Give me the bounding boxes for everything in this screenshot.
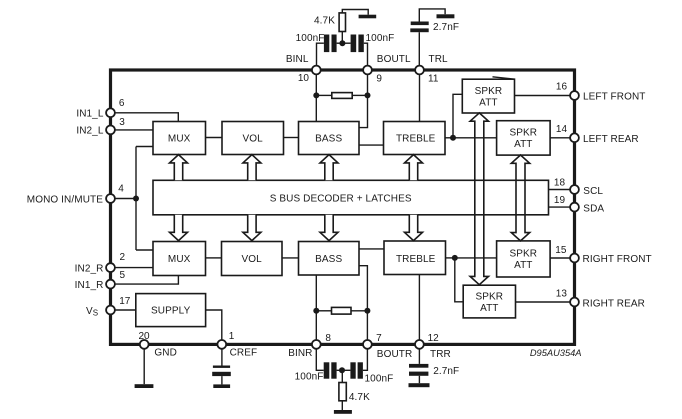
svg-text:16: 16	[556, 82, 568, 93]
pin 6 circle	[106, 108, 115, 117]
capacitor C1 100nF (top left) plate 1	[324, 35, 329, 53]
wire pin4 to node A	[115, 198, 136, 200]
capacitor C2 100nF (top right) plate 2	[358, 35, 363, 53]
arrow SBUS to TREBLE top	[405, 155, 423, 181]
svg-text:MUX: MUX	[168, 134, 191, 145]
svg-text:2.7nF: 2.7nF	[433, 22, 459, 33]
block TREBLE (bottom)	[384, 241, 446, 275]
wire node A vertical	[135, 147, 137, 251]
ground bar (GND pin20)	[135, 384, 154, 388]
svg-text:SCL: SCL	[583, 186, 603, 197]
svg-text:5: 5	[120, 270, 126, 281]
wire C3 top to ground	[419, 9, 445, 22]
svg-text:3: 3	[119, 117, 125, 128]
svg-text:VS: VS	[86, 306, 98, 318]
svg-text:8: 8	[325, 333, 331, 344]
wire TREBLE(top) to node B	[445, 137, 453, 139]
wire pin8 BINR into BASS bottom	[315, 275, 317, 340]
pin 13 circle	[570, 298, 579, 307]
svg-text:ATT: ATT	[480, 303, 498, 314]
node junction dot pin9 leg	[365, 92, 371, 98]
svg-text:TRR: TRR	[430, 349, 451, 360]
wire pin17 to SUPPLY	[115, 309, 136, 311]
wire R2 top lead	[341, 370, 343, 382]
capacitor C7 CREF plate 2	[212, 372, 231, 376]
node B junction dot	[450, 135, 456, 141]
svg-text:BINR: BINR	[288, 348, 312, 359]
wire R1 bottom lead to junction	[341, 32, 343, 44]
wire pin11 up to C3	[418, 32, 420, 65]
svg-text:BOUTR: BOUTR	[377, 349, 413, 360]
svg-text:2.7nF: 2.7nF	[433, 366, 459, 377]
wire pin10 up to capacitor network	[317, 43, 324, 65]
svg-text:11: 11	[428, 73, 439, 84]
svg-text:4: 4	[118, 183, 124, 194]
svg-text:RIGHT FRONT: RIGHT FRONT	[583, 254, 652, 265]
block SPKR ATT U1 (pin16)	[462, 79, 514, 113]
resistor R internal bottom	[332, 307, 352, 314]
wire pin1 down to C7	[221, 349, 223, 366]
svg-text:BASS: BASS	[315, 254, 342, 265]
svg-text:LEFT REAR: LEFT REAR	[583, 134, 639, 145]
node junction dot between C4 C5	[339, 367, 345, 373]
wire R1 top lead to ground	[342, 10, 368, 15]
wire BASS-TREBLE (bottom)	[359, 248, 384, 250]
wire pin8 down to capacitor network	[316, 349, 323, 371]
block SPKR ATT U2 (pin14)	[497, 121, 550, 155]
svg-text:7: 7	[376, 333, 382, 344]
wire node C down to SPKR ATT U4	[455, 258, 463, 302]
block BASS (bottom)	[299, 242, 360, 276]
block MUX (bottom)	[153, 242, 206, 276]
svg-text:1: 1	[229, 331, 235, 342]
node junction dot pin7 leg	[364, 308, 370, 314]
pin 14 circle	[570, 133, 579, 142]
wire C6 bottom to ground	[418, 376, 420, 383]
wire pin12 down to C6	[418, 349, 420, 364]
pin 5 circle	[106, 280, 115, 289]
arrow SBUS to VOL bottom	[243, 215, 261, 241]
svg-text:10: 10	[298, 73, 310, 84]
capacitor C1 100nF (top left) plate 2	[332, 35, 337, 53]
wire SPKR ATT U1 to pin16	[515, 95, 571, 97]
svg-text:SPKR: SPKR	[509, 249, 537, 260]
wire between C1 and C2	[337, 42, 351, 44]
svg-text:100nF: 100nF	[296, 33, 325, 44]
svg-text:BINL: BINL	[286, 54, 309, 65]
ground bar (C7)	[213, 384, 230, 388]
wire SUPPLY to pin1 CREF	[206, 310, 222, 340]
svg-text:100nF: 100nF	[366, 33, 395, 44]
block TREBLE (top)	[384, 122, 446, 155]
pin 15 circle	[570, 254, 579, 263]
svg-text:LEFT FRONT: LEFT FRONT	[583, 92, 645, 103]
wire resistor top right lead	[352, 94, 367, 96]
wire between C4 and C5	[337, 369, 351, 371]
capacitor C3 2.7nF plate 1	[411, 22, 429, 26]
capacitor C2 100nF (top right) plate 1	[351, 35, 357, 53]
wire SPKR ATT U4 to pin13	[516, 301, 571, 303]
arrow double SBUS/SPKR column B (U2-U3)	[511, 155, 529, 241]
arrow double SBUS/SPKR column A (U1-U4)	[470, 113, 488, 285]
wire pin10 BINL into BASS top	[315, 74, 317, 121]
ground bar (top R1)	[359, 15, 377, 19]
arrow SBUS to MUX bottom	[170, 215, 188, 241]
pin 2 circle	[106, 263, 115, 272]
IC body outline	[111, 70, 575, 344]
wire node B up to SPKR ATT U1	[453, 94, 462, 138]
resistor R1 4.7K (top)	[339, 13, 345, 32]
svg-text:MUX: MUX	[168, 254, 191, 265]
svg-text:SDA: SDA	[583, 204, 604, 215]
svg-text:17: 17	[119, 296, 131, 307]
node junction dot pin10 leg	[313, 92, 319, 98]
svg-text:100nF: 100nF	[295, 372, 324, 383]
wire R2 bottom lead	[341, 401, 343, 410]
wire pin9 BOUTL into BASS right	[359, 74, 368, 127]
ground bar (bottom C6)	[409, 383, 430, 387]
capacitor C4 100nF (bottom left) plate 2	[331, 362, 336, 378]
block SPKR ATT U3 (pin15)	[497, 241, 550, 277]
svg-text:ATT: ATT	[479, 98, 497, 109]
capacitor C6 2.7nF plate 2	[409, 372, 428, 376]
svg-text:ATT: ATT	[514, 139, 532, 150]
pin 10 circle	[312, 66, 321, 75]
pin 3 circle	[106, 125, 115, 134]
wire SBUS to pin19 SDA	[549, 206, 571, 208]
svg-text:14: 14	[556, 124, 568, 135]
wire VOL-BASS (top)	[284, 137, 299, 139]
capacitor C3 2.7nF plate 2	[410, 28, 428, 32]
wire pin6 to MUX top	[115, 113, 178, 122]
wire C7 to ground	[221, 376, 223, 384]
pin 20 circle	[140, 340, 149, 349]
arrow SBUS to BASS bottom	[320, 215, 338, 241]
wire SBUS to pin18 SCL	[549, 189, 571, 191]
pin 17 circle	[106, 306, 115, 315]
resistor R2 4.7K (bottom)	[339, 383, 346, 401]
svg-text:9: 9	[376, 73, 382, 84]
svg-text:6: 6	[119, 98, 125, 109]
svg-text:SPKR: SPKR	[475, 292, 503, 303]
wire pin9 up to capacitor network	[364, 43, 368, 65]
svg-text:4.7K: 4.7K	[349, 392, 370, 403]
svg-text:12: 12	[428, 333, 440, 344]
svg-text:VOL: VOL	[242, 254, 263, 265]
wire resistor bottom left lead	[316, 310, 331, 312]
wire BASS-TREBLE (top)	[359, 144, 384, 146]
wire VOL-BASS (bottom)	[282, 257, 299, 259]
pin 7 circle	[363, 340, 372, 349]
pin 19 circle	[570, 203, 579, 212]
svg-text:4.7K: 4.7K	[314, 16, 335, 27]
svg-text:RIGHT REAR: RIGHT REAR	[583, 298, 646, 309]
svg-text:D95AU354A: D95AU354A	[530, 348, 582, 358]
svg-text:TRL: TRL	[429, 54, 449, 65]
block S BUS DECODER + LATCHES	[153, 180, 549, 215]
wire SPKR ATT U2 to pin14	[550, 137, 570, 139]
svg-text:100nF: 100nF	[365, 374, 394, 385]
wire pin2 to MUX(bottom) left	[115, 267, 153, 269]
wire node C to SPKR ATT U3	[455, 257, 497, 259]
svg-text:S BUS DECODER + LATCHES: S BUS DECODER + LATCHES	[270, 194, 412, 205]
pin 16 circle	[570, 91, 579, 100]
node C junction dot	[452, 255, 458, 261]
svg-text:ATT: ATT	[514, 260, 532, 271]
svg-text:TREBLE: TREBLE	[396, 254, 436, 265]
pin 11 circle	[415, 66, 424, 75]
wire pin3 to MUX left	[115, 129, 153, 131]
block SUPPLY	[136, 294, 206, 327]
capacitor C7 CREF plate 1	[213, 366, 230, 368]
svg-text:BOUTL: BOUTL	[377, 54, 411, 65]
svg-text:13: 13	[556, 289, 568, 300]
node A junction dot	[133, 196, 139, 202]
wire node A to MUX top left	[136, 146, 153, 148]
wire node B to SPKR ATT U2	[453, 137, 497, 139]
wire pin20 down to ground	[143, 349, 145, 384]
block MUX (top)	[153, 122, 206, 155]
svg-text:15: 15	[555, 245, 567, 256]
svg-text:IN1_R: IN1_R	[75, 280, 104, 291]
capacitor C5 100nF (bottom right) plate 1	[350, 362, 355, 378]
wire pin5 to MUX(bottom) bottom	[115, 276, 178, 285]
block BASS (top)	[299, 122, 360, 155]
svg-text:19: 19	[554, 195, 566, 206]
capacitor C5 100nF (bottom right) plate 2	[358, 362, 363, 378]
wire pin7 down to capacitor network	[363, 349, 368, 371]
arrow SBUS to MUX top	[170, 155, 188, 181]
svg-text:MONO IN/MUTE: MONO IN/MUTE	[27, 194, 103, 205]
svg-text:CREF: CREF	[230, 348, 258, 359]
pin 18 circle	[570, 185, 579, 194]
wire pin11 TRL into TREBLE top	[419, 74, 421, 121]
wire TREBLE(bottom) to node C	[446, 257, 455, 259]
svg-text:20: 20	[138, 331, 150, 342]
block VOL (bottom)	[222, 242, 283, 276]
svg-text:SPKR: SPKR	[509, 128, 537, 139]
svg-text:IN2_L: IN2_L	[76, 126, 104, 137]
pin 1 circle	[217, 340, 226, 349]
pin 12 circle	[415, 340, 424, 349]
resistor R internal top	[332, 93, 352, 99]
svg-text:SUPPLY: SUPPLY	[151, 306, 191, 317]
svg-text:IN1_L: IN1_L	[76, 109, 104, 120]
ground bar (top C3)	[437, 14, 455, 18]
wire resistor top left lead	[316, 94, 332, 96]
arrow SBUS to TREBLE bottom	[405, 215, 423, 241]
wire pin12 TRR into TREBLE bottom	[418, 275, 420, 341]
wire pin7 BOUTR into BASS right	[359, 266, 367, 340]
wire MUX-VOL (top)	[206, 137, 223, 139]
pin 9 circle	[363, 66, 372, 75]
ground bar (bottom R2)	[334, 410, 352, 414]
pin 8 circle	[312, 340, 321, 349]
svg-text:18: 18	[554, 177, 566, 188]
svg-text:VOL: VOL	[243, 134, 264, 145]
node junction dot between C1 C2	[339, 40, 345, 46]
capacitor C6 2.7nF plate 1	[409, 364, 428, 368]
node junction dot pin8 leg	[313, 308, 319, 314]
svg-text:IN2_R: IN2_R	[75, 263, 104, 274]
block SPKR ATT U4 (pin13)	[463, 285, 515, 318]
pin 4 circle	[106, 194, 115, 203]
svg-text:SPKR: SPKR	[475, 86, 503, 97]
svg-text:GND: GND	[154, 348, 177, 359]
arrow SBUS to VOL top	[243, 155, 261, 181]
wire resistor bottom right lead	[351, 310, 367, 312]
svg-text:TREBLE: TREBLE	[396, 134, 436, 145]
wire MUX-VOL (bottom)	[206, 257, 222, 259]
arrow SBUS to BASS top	[320, 155, 338, 181]
wire node A to MUX bottom left	[136, 249, 153, 251]
block VOL (top)	[222, 122, 284, 155]
svg-text:2: 2	[120, 252, 126, 263]
svg-text:BASS: BASS	[315, 134, 342, 145]
capacitor C4 100nF (bottom left) plate 1	[324, 362, 330, 378]
wire SPKR ATT U3 to pin15	[550, 257, 570, 259]
